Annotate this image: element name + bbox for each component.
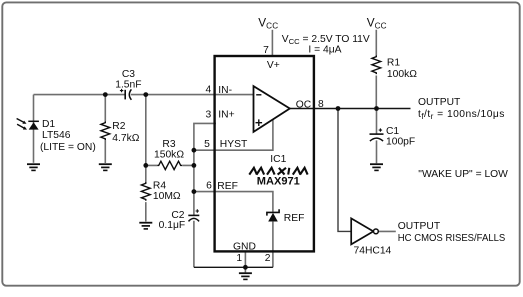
resistor R3 150k: [154, 139, 184, 170]
pin 2 label: [265, 253, 271, 264]
svg-text:6: 6: [206, 180, 212, 191]
svg-text:150kΩ: 150kΩ: [154, 150, 184, 161]
ground (R4): [139, 223, 152, 229]
wire: output to inverter input: [338, 109, 352, 232]
svg-text:0.1μF: 0.1μF: [159, 220, 186, 231]
resistor R4 10M: [141, 180, 181, 202]
svg-text:100kΩ: 100kΩ: [387, 69, 417, 80]
wire: inverter output stub: [379, 230, 396, 232]
pin 8 label: [318, 99, 324, 110]
wire: pin 1 to ground: [244, 251, 246, 272]
wire: R3 horizontal leads: [146, 164, 194, 166]
zener REF: [267, 209, 305, 224]
VCC supply (pin 7): [258, 15, 278, 30]
svg-text:REF: REF: [284, 213, 305, 224]
wire: comparator output (pin 8): [290, 108, 411, 110]
pin 7 label: [263, 45, 269, 56]
wire: main node D1/R2/C3 to IN- (pin 4): [34, 94, 254, 96]
svg-text:I = 4μA: I = 4μA: [308, 44, 341, 55]
svg-text:8: 8: [318, 99, 324, 110]
svg-text:3: 3: [205, 109, 211, 120]
svg-text:4.7kΩ: 4.7kΩ: [112, 133, 139, 144]
node: R3 right: [192, 163, 197, 168]
output label (inverter): [398, 221, 506, 244]
pin 5 label: [204, 139, 210, 150]
svg-text:OUTPUT: OUTPUT: [418, 97, 461, 108]
node: C3 right: [143, 92, 148, 97]
svg-text:HC CMOS RISES/FALLS: HC CMOS RISES/FALLS: [398, 233, 506, 244]
capacitor C1 100pF: [370, 126, 416, 148]
svg-text:100pF: 100pF: [386, 137, 415, 148]
pin 3 label: [205, 109, 211, 120]
wire: zener anode to pin 2: [272, 222, 274, 268]
wire: REF (pin 6) to internal zener: [194, 192, 273, 212]
svg-text:2: 2: [265, 253, 271, 264]
wake up annotation: [418, 169, 508, 180]
ground (D1): [27, 164, 40, 170]
wire: HYST (pin 5) to op-amp: [194, 120, 273, 150]
capacitor C2 0.1uF: [159, 209, 200, 231]
svg-text:IN-: IN-: [218, 85, 232, 96]
svg-text:OC: OC: [296, 100, 312, 111]
svg-text:OUTPUT: OUTPUT: [398, 221, 441, 232]
pin 4 label: [205, 84, 211, 95]
wire: VCC to V+ (pin 7): [271, 30, 273, 55]
svg-text:"WAKE UP" = LOW: "WAKE UP" = LOW: [418, 169, 508, 180]
node: HYST tap: [192, 148, 197, 153]
pin IN+ label: [218, 109, 234, 120]
inverter 74HC14: [351, 218, 391, 256]
node: REF tap: [192, 189, 197, 194]
resistor R2 4.7k: [101, 121, 140, 144]
svg-text:R3: R3: [162, 139, 175, 150]
svg-text:C3: C3: [122, 69, 135, 80]
svg-text:10MΩ: 10MΩ: [153, 191, 181, 202]
svg-text:(LITE = ON): (LITE = ON): [40, 142, 96, 153]
svg-text:REF: REF: [217, 181, 238, 192]
pin 1 label: [236, 253, 242, 264]
svg-text:IC1: IC1: [270, 154, 286, 165]
pin V+ label: [267, 60, 280, 71]
ground (R2): [99, 164, 112, 170]
wire: IN+ (pin 3) to feedback node down to C2: [194, 123, 216, 267]
svg-text:1: 1: [236, 253, 242, 264]
pin 6 label: [206, 180, 212, 191]
svg-text:1.5nF: 1.5nF: [115, 79, 141, 90]
VCC supply (R1): [367, 15, 387, 30]
wire: D1 branch vertical: [33, 95, 35, 163]
svg-text:R4: R4: [153, 180, 166, 191]
op-amp comparator: [254, 86, 290, 132]
Maxim logo: [249, 168, 307, 175]
node: R3 left: [143, 163, 148, 168]
svg-text:4: 4: [205, 84, 211, 95]
svg-text:V+: V+: [267, 60, 280, 71]
node: output to R1/C1: [374, 106, 379, 111]
svg-text:MAX971: MAX971: [257, 176, 300, 188]
wire: VCC to R1 and R1 to output: [375, 30, 377, 109]
pin OC label: [296, 100, 312, 111]
ground (GND pins): [239, 273, 252, 279]
output label (comparator): [418, 97, 505, 121]
pin REF label: [217, 181, 238, 192]
svg-text:GND: GND: [233, 241, 256, 252]
svg-text:7: 7: [263, 45, 269, 56]
wire: C3 right node down to R3/R4: [145, 95, 147, 222]
svg-text:C1: C1: [386, 126, 399, 137]
svg-text:5: 5: [204, 139, 210, 150]
wire: bottom ground bus C2 to pins 1,2: [194, 266, 273, 268]
node: R2 top: [103, 92, 108, 97]
ground (C1): [370, 164, 383, 170]
node: ground bus pin 1: [243, 265, 248, 270]
pin GND label: [233, 241, 256, 252]
svg-text:HYST: HYST: [220, 139, 248, 150]
svg-text:D1: D1: [42, 119, 55, 130]
photodiode D1 LT546: [17, 119, 96, 153]
svg-text:IN+: IN+: [218, 109, 234, 120]
wire: R2 branch vertical: [104, 95, 106, 163]
svg-text:R1: R1: [387, 57, 400, 68]
pin HYST label: [220, 139, 248, 150]
capacitor C3 1.5nF: [115, 69, 141, 100]
VCC annotation: [282, 34, 370, 55]
wire: C1 branch vertical: [376, 109, 378, 164]
svg-text:74HC14: 74HC14: [354, 245, 392, 256]
svg-text:LT546: LT546: [42, 130, 71, 141]
pin IN- label: [218, 85, 232, 96]
IC1 MAX971 box: [215, 56, 314, 251]
node: output to inverter: [336, 106, 341, 111]
svg-text:R2: R2: [112, 121, 125, 132]
resistor R1 100k: [372, 55, 417, 80]
